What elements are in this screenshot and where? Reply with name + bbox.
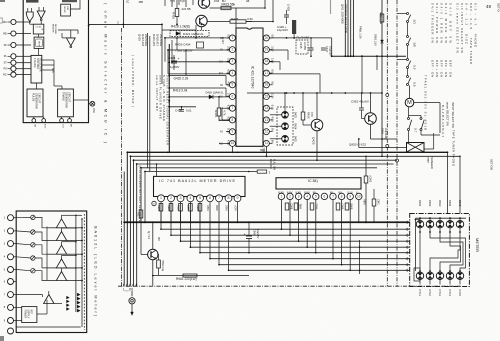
svg-text:( umpa PHONO, METER ): ( umpa PHONO, METER ) [131, 55, 135, 107]
svg-text:D74X: D74X [225, 205, 228, 211]
LED D7L5 [456, 272, 463, 279]
wire IC421 left pin stubs [222, 107, 230, 109]
svg-text:SELECTION: SELECTION [39, 58, 42, 72]
meter connector stubs [406, 221, 410, 223]
pcb edge chain vertical left [121, 28, 123, 286]
svg-text:S-0 ~ 1,2: S-0 ~ 1,2 [465, 3, 469, 25]
svg-text:5M: 5M [69, 124, 71, 127]
wires terminals to attens [16, 216, 31, 218]
svg-text:10: 10 [231, 141, 235, 145]
svg-text:6V: 6V [270, 70, 274, 73]
pcb chain vertical right A [386, 0, 388, 286]
svg-text:5: 5 [199, 196, 201, 200]
svg-text:2: 2 [289, 194, 291, 198]
svg-text:8: 8 [341, 194, 343, 198]
meter box outline [410, 214, 470, 287]
IC741 pin 4 [187, 195, 194, 202]
svg-text:GENERATOR: GENERATOR [35, 93, 38, 109]
wire R423 to top [236, 7, 265, 9]
svg-text:3.8V: 3.8V [270, 46, 274, 52]
IC421 pin 9 [229, 129, 235, 135]
svg-text:8V: 8V [330, 191, 334, 195]
svg-text:VOLTAGE REGULATOR: VOLTAGE REGULATOR [344, 4, 348, 33]
switch S7 left [408, 118, 410, 120]
meter top wire [416, 217, 467, 219]
main solid rail right [381, 0, 383, 156]
meter bus wire 2 [171, 234, 410, 236]
reference block [22, 307, 37, 323]
wire IC841 right feed [365, 156, 367, 176]
IC421 pin 14 [263, 70, 269, 76]
IC421 pin 3 [229, 58, 235, 64]
svg-text:V: V [356, 191, 358, 195]
IC421 pin 6 [229, 94, 235, 100]
svg-text:D426 10AW-2L: D426 10AW-2L [206, 91, 225, 95]
svg-text:RE: RE [3, 32, 7, 35]
IC741 pin 9 [234, 195, 241, 202]
svg-text:S.7: S.7 [414, 128, 418, 133]
svg-text:7: 7 [218, 196, 220, 200]
svg-text:20: 20 [265, 36, 269, 40]
capacitor C436 [310, 38, 312, 48]
svg-text:D841: D841 [418, 200, 422, 207]
svg-text:10μ/16V: 10μ/16V [277, 28, 288, 32]
electrolytic capacitor C433 [292, 20, 296, 34]
svg-text:4.9V: 4.9V [227, 81, 231, 87]
svg-text:D7L5: D7L5 [458, 290, 462, 297]
IC741 pin 6 [207, 195, 214, 202]
IC741 pin 1 [158, 195, 165, 202]
svg-text:IC 421 LC7940: IC 421 LC7940 [251, 66, 255, 89]
terminal T2 (RE) [11, 31, 16, 36]
LED D845 [456, 221, 463, 228]
terminal CM [33, 117, 35, 119]
IC841 pin drops [280, 200, 282, 229]
svg-text:1: 1 [280, 194, 282, 198]
svg-text:CM: CM [34, 124, 36, 127]
svg-text:S/3 ~ 6,7: S/3 ~ 6,7 [474, 3, 478, 25]
svg-text:10μ/25V: 10μ/25V [256, 229, 259, 239]
svg-text:8: 8 [232, 118, 234, 122]
svg-text:R4L9 3.9k: R4L9 3.9k [173, 89, 188, 93]
svg-text:S/3 INPUT SELECT SW: S/3 INPUT SELECT SW [460, 3, 464, 53]
wire Q7L3 connections [152, 222, 154, 249]
svg-text:+: + [244, 233, 246, 237]
LED D7L2 [426, 272, 433, 279]
vertical bus wire 2 [126, 152, 128, 285]
svg-text:3: 3 [232, 59, 234, 63]
svg-text:14: 14 [265, 106, 269, 110]
svg-text:PULSE: PULSE [32, 93, 35, 102]
svg-text:8V: 8V [313, 191, 317, 195]
switch S9 [407, 59, 409, 61]
meter bus wire 1 [161, 228, 410, 230]
svg-text:O-O: O-O [61, 124, 63, 128]
svg-text:R426: R426 [172, 12, 176, 19]
svg-text:0V: 0V [270, 81, 274, 84]
BA612L terminal 6 [8, 279, 14, 285]
rail 2 [130, 155, 460, 157]
svg-text:METER: METER [475, 238, 480, 252]
svg-text:D423: D423 [294, 112, 297, 119]
BA612L terminal 1 [8, 215, 14, 221]
transistor Q425 [311, 119, 323, 131]
svg-text:D842: D842 [428, 200, 432, 207]
LED D423 [282, 112, 289, 119]
motor M401 [405, 98, 414, 107]
meter bus wire 4 [190, 246, 409, 248]
svg-text:D843: D843 [438, 200, 442, 207]
scan mark bottom left [0, 336, 4, 341]
pcb chain bottom [118, 285, 461, 287]
svg-text:G432 2.2k: G432 2.2k [174, 76, 189, 80]
IC741 meter drive body [154, 176, 246, 196]
resistor R426 [175, 9, 179, 17]
svg-text:SUPPLY: SUPPLY [27, 310, 29, 319]
IC421 pin 7 [229, 105, 235, 111]
test point OSC [90, 101, 95, 106]
svg-text:3.3k: 3.3k [247, 17, 253, 21]
terminal e [152, 201, 156, 205]
IC421 pin 18 [263, 117, 269, 123]
svg-text:8V: 8V [339, 191, 343, 195]
wire transistor mesh [195, 25, 197, 38]
svg-text:0.01: 0.01 [186, 109, 192, 113]
comparator A2 [56, 232, 66, 241]
BA612L terminal 7 [8, 292, 14, 298]
svg-text:DISC: DISC [465, 34, 469, 44]
svg-text:TAPE TUNER: TAPE TUNER [469, 38, 473, 64]
resistor R43X [301, 112, 305, 120]
components right of IC841 [364, 176, 368, 183]
IC421 pin 16 [263, 94, 269, 100]
svg-text:D424: D424 [294, 123, 297, 130]
svg-text:TAPE TUNER PHONO: TAPE TUNER PHONO [452, 130, 456, 167]
wires lower block [16, 294, 42, 296]
wire bus to timing [42, 59, 54, 61]
svg-text:0V: 0V [270, 34, 274, 37]
IC421 pin 19 [263, 129, 269, 135]
BA612L terminal 4 [8, 254, 14, 260]
resistor R7L1 [139, 210, 143, 218]
svg-text:0.1V: 0.1V [347, 191, 353, 195]
svg-text:MUSIC: MUSIC [63, 7, 65, 14]
LED D841 [416, 221, 423, 228]
svg-text:8V: 8V [270, 128, 274, 131]
IC421 body [236, 28, 263, 146]
svg-text:DEF - ON: DEF - ON [449, 60, 453, 77]
svg-text:SV3 ~ 3,4,5: SV3 ~ 3,4,5 [469, 3, 473, 29]
pcb chain vertical right B [396, 0, 398, 286]
terminal ground post [129, 298, 135, 304]
svg-text:OFF - ON: OFF - ON [431, 60, 435, 77]
svg-text:19: 19 [265, 47, 269, 51]
mute block B2 [34, 37, 44, 48]
resistor R433 [217, 108, 221, 116]
svg-text:5: 5 [232, 83, 234, 87]
meter bus wire 6 [210, 258, 410, 260]
arrow stack right [77, 293, 80, 296]
svg-text:S/2 omon SELECT SW: S/2 omon SELECT SW [456, 3, 460, 53]
svg-text:TQ0: TQ0 [180, 0, 185, 3]
diode D421 [170, 31, 209, 37]
transistor Q422 [196, 15, 207, 26]
scan streak right [330, 0, 332, 14]
BA612L terminal 5 [8, 267, 14, 273]
svg-text:7: 7 [232, 106, 234, 110]
svg-text:SET-O: SET-O [497, 3, 500, 12]
svg-text:4: 4 [232, 71, 234, 75]
svg-text:TQ5: TQ5 [170, 0, 175, 3]
wire op-amp A2 feeds [62, 37, 66, 39]
svg-text:22k 5B: 22k 5B [182, 7, 191, 11]
comparator A1 [56, 219, 66, 228]
svg-text:POWER: POWER [24, 310, 26, 319]
op-amp A2 [66, 38, 75, 46]
svg-text:750B 1μ/50V: 750B 1μ/50V [175, 49, 194, 53]
IC841 pin 5 [313, 193, 319, 199]
svg-text:1 MUSIC: 1 MUSIC [33, 58, 36, 68]
svg-text:D7L1: D7L1 [418, 290, 422, 297]
svg-text:M: M [407, 100, 412, 106]
feedback rail [46, 227, 48, 281]
LED D424 [282, 123, 289, 130]
vertical bus wire 4 [133, 160, 135, 285]
ground arrow [131, 304, 133, 312]
svg-text:omon SELECT SW: omon SELECT SW [446, 102, 450, 126]
op-amp A1 [37, 11, 45, 19]
svg-text:C952 47μ/6V: C952 47μ/6V [351, 100, 370, 104]
comparator A5 [56, 272, 66, 281]
svg-text:8.8V: 8.8V [287, 191, 293, 195]
svg-text:B-1,2 B-3,4,5 D-6,7: B-1,2 B-3,4,5 D-6,7 [441, 105, 445, 137]
switch S472 [407, 36, 409, 38]
terminal T5 (ST) [11, 60, 16, 65]
svg-text:18: 18 [265, 59, 269, 63]
power rail wire [332, 55, 406, 57]
terminal T3 (FF) [11, 42, 16, 47]
svg-text:219B: 219B [187, 205, 190, 211]
svg-text:PLUNGER: PLUNGER [430, 156, 434, 169]
svg-text:1μ/50V: 1μ/50V [170, 65, 179, 69]
IC421 pin 5 [229, 82, 235, 88]
svg-text:umpa: umpa [427, 156, 430, 163]
supply rail y93 [247, 92, 382, 94]
svg-text:PS: PS [3, 68, 7, 71]
svg-text:C428: C428 [286, 4, 290, 11]
svg-text:S4/2 POWER SW: S4/2 POWER SW [435, 3, 439, 43]
timing generator circuit block [58, 89, 74, 117]
comparator A6 [44, 295, 54, 304]
IC841 pin 2 [287, 193, 293, 199]
svg-text:6.1V: 6.1V [270, 105, 274, 111]
svg-text:D845: D845 [458, 200, 462, 207]
LED D425 [282, 136, 289, 143]
IC841 pin 6 [321, 193, 327, 199]
feed verticals upper [147, 33, 149, 168]
IC741 pin 5 [197, 195, 204, 202]
IC841 pin 7 [330, 193, 336, 199]
svg-text:SET-ON: SET-ON [490, 159, 494, 170]
svg-text:3W: 3W [157, 237, 160, 241]
svg-text:7: 7 [332, 194, 334, 198]
svg-text:OFF - ON: OFF - ON [444, 60, 448, 77]
svg-text:13: 13 [265, 118, 269, 122]
IC421 pin 1 [229, 35, 235, 41]
svg-text:470: 470 [310, 112, 314, 117]
resistor on rail 6 [257, 170, 267, 173]
svg-text:HT64 2.2μ: HT64 2.2μ [161, 260, 164, 272]
svg-text:6.2V: 6.2V [227, 105, 231, 111]
svg-text:R84X: R84X [363, 199, 366, 205]
connector circles on chain [386, 94, 389, 97]
svg-text:2SC536G: 2SC536G [159, 34, 163, 46]
LED D842 [426, 221, 433, 228]
wire IC421 bottom pin drops [231, 146, 233, 152]
svg-text:FF: FF [4, 44, 8, 47]
wire IC421 right pin3 [269, 61, 280, 63]
svg-text:D690: D690 [157, 205, 160, 211]
svg-text:+C74: +C74 [234, 205, 237, 211]
pulse generator circuit block [27, 89, 43, 117]
transistor Q421 [198, 0, 209, 8]
wire MCU to bus [122, 0, 124, 28]
svg-text:R74X: R74X [206, 205, 209, 211]
resistor R961 [153, 275, 249, 277]
svg-text:D7L4: D7L4 [448, 290, 452, 297]
top edge stubs [164, 0, 166, 6]
svg-text:D951 15V: D951 15V [374, 34, 378, 46]
rail 5 [141, 167, 377, 169]
rail 6 [145, 171, 257, 173]
svg-text:5: 5 [315, 194, 317, 198]
svg-text:4: 4 [306, 194, 308, 198]
svg-text:OFF + ON: OFF + ON [435, 60, 439, 77]
svg-text:D7L3: D7L3 [438, 290, 442, 297]
svg-text:49: 49 [486, 4, 492, 9]
LED D843 [436, 221, 443, 228]
scan mark left bracket [0, 18, 2, 23]
latch block B1 [33, 24, 44, 34]
svg-text:45B: 45B [139, 1, 144, 4]
IC841 pin 1 [278, 193, 284, 199]
BA612L terminal 3 [8, 241, 14, 247]
svg-text:9: 9 [232, 130, 234, 134]
svg-text:umpa INPUT AMP: umpa INPUT AMP [155, 75, 159, 111]
wire motor right [414, 102, 440, 104]
capacitor C445 dashed [296, 40, 308, 54]
IC841 lower components [285, 203, 289, 210]
wire y107 [169, 106, 196, 108]
rail 4 [137, 163, 394, 165]
svg-text:C7L9: C7L9 [262, 146, 265, 153]
wire IC421 right pin1 [269, 37, 332, 39]
MCU top connector block [62, 0, 77, 2]
svg-text:OSC: OSC [92, 108, 95, 113]
svg-text:9: 9 [349, 194, 351, 198]
LED D844 [446, 221, 453, 228]
svg-text:S4/3 1 REW SW: S4/3 1 REW SW [440, 3, 444, 43]
svg-text:PRL 804: PRL 804 [269, 159, 272, 169]
terminal T6 (PS) [11, 66, 16, 71]
shifting selection gate block [31, 55, 42, 83]
svg-text:6: 6 [209, 196, 211, 200]
svg-text:3.8V: 3.8V [227, 58, 231, 64]
meter bus wire 5 [200, 252, 410, 254]
svg-text:R428 1.2k(B): R428 1.2k(B) [171, 25, 190, 29]
terminal EXO [43, 117, 45, 119]
wire q953 to plunger [359, 147, 407, 149]
svg-text:10: 10 [357, 194, 361, 198]
svg-text:PRbL 1.5A: PRbL 1.5A [359, 26, 363, 39]
meter bus wire 3 [181, 240, 410, 242]
terminal 5M [69, 117, 71, 119]
svg-text:CIRCUIT: CIRCUIT [38, 93, 41, 104]
wire IC421 right pin4 [269, 73, 320, 75]
svg-text:4: 4 [189, 196, 191, 200]
vertical bus wire 3 [129, 156, 131, 285]
wire connector to ground [131, 291, 133, 296]
svg-text:EXO: EXO [44, 124, 46, 129]
svg-text:17: 17 [265, 71, 269, 75]
svg-text:1: 1 [232, 36, 234, 40]
meter bus wire 8 [229, 269, 410, 271]
svg-text:INPUT SELECT SW: INPUT SELECT SW [451, 102, 455, 128]
IC841 body [276, 178, 361, 189]
switch S8 [407, 76, 409, 78]
svg-text:750B: 750B [177, 205, 180, 211]
svg-text:S/0: S/0 [413, 43, 417, 48]
svg-text:+C843: +C843 [368, 175, 371, 183]
MCU header bar [26, 0, 39, 3]
svg-text:15: 15 [265, 94, 269, 98]
wire S7 to plunger [408, 131, 410, 143]
vertical bus wire 5 [136, 164, 138, 286]
meter bus wire 7 [219, 264, 410, 266]
svg-text:Q.7L3: Q.7L3 [147, 231, 151, 239]
svg-text:RC: RC [3, 73, 7, 76]
input attenuators [31, 215, 35, 219]
output rail 2 [81, 219, 83, 327]
svg-text:1V: 1V [227, 93, 231, 96]
svg-text:1: 1 [160, 196, 162, 200]
svg-text:MUTE: MUTE [37, 41, 39, 47]
svg-text:6.1V: 6.1V [227, 128, 231, 134]
svg-text:R7L: R7L [137, 212, 140, 217]
svg-text:ST: ST [4, 62, 8, 65]
BA612L block outline [16, 211, 87, 333]
svg-text:D416,415: D416,415 [152, 34, 156, 47]
IC841 pin 3 [295, 193, 301, 199]
wire timing out [73, 99, 88, 101]
svg-text:LC455: LC455 [303, 42, 307, 50]
switch S471 [407, 13, 409, 15]
svg-text:C445: C445 [299, 42, 303, 49]
wire Q425 vertical [316, 93, 318, 119]
svg-text:8.8V: 8.8V [304, 191, 310, 195]
switch S7 right [420, 118, 422, 120]
terminal T1 (MU) [11, 19, 16, 24]
svg-text:5.2V: 5.2V [270, 93, 274, 99]
IC421 pin 4 [229, 70, 235, 76]
resistor R425 [207, 21, 230, 23]
svg-text:DG5: DG5 [214, 0, 220, 3]
bold feed rail [168, 44, 170, 152]
LED D7L1 [416, 272, 423, 279]
terminal T4 (PL) [11, 54, 16, 59]
IC401 MCU block outline [23, 0, 88, 123]
OR gate G1 [26, 12, 33, 22]
